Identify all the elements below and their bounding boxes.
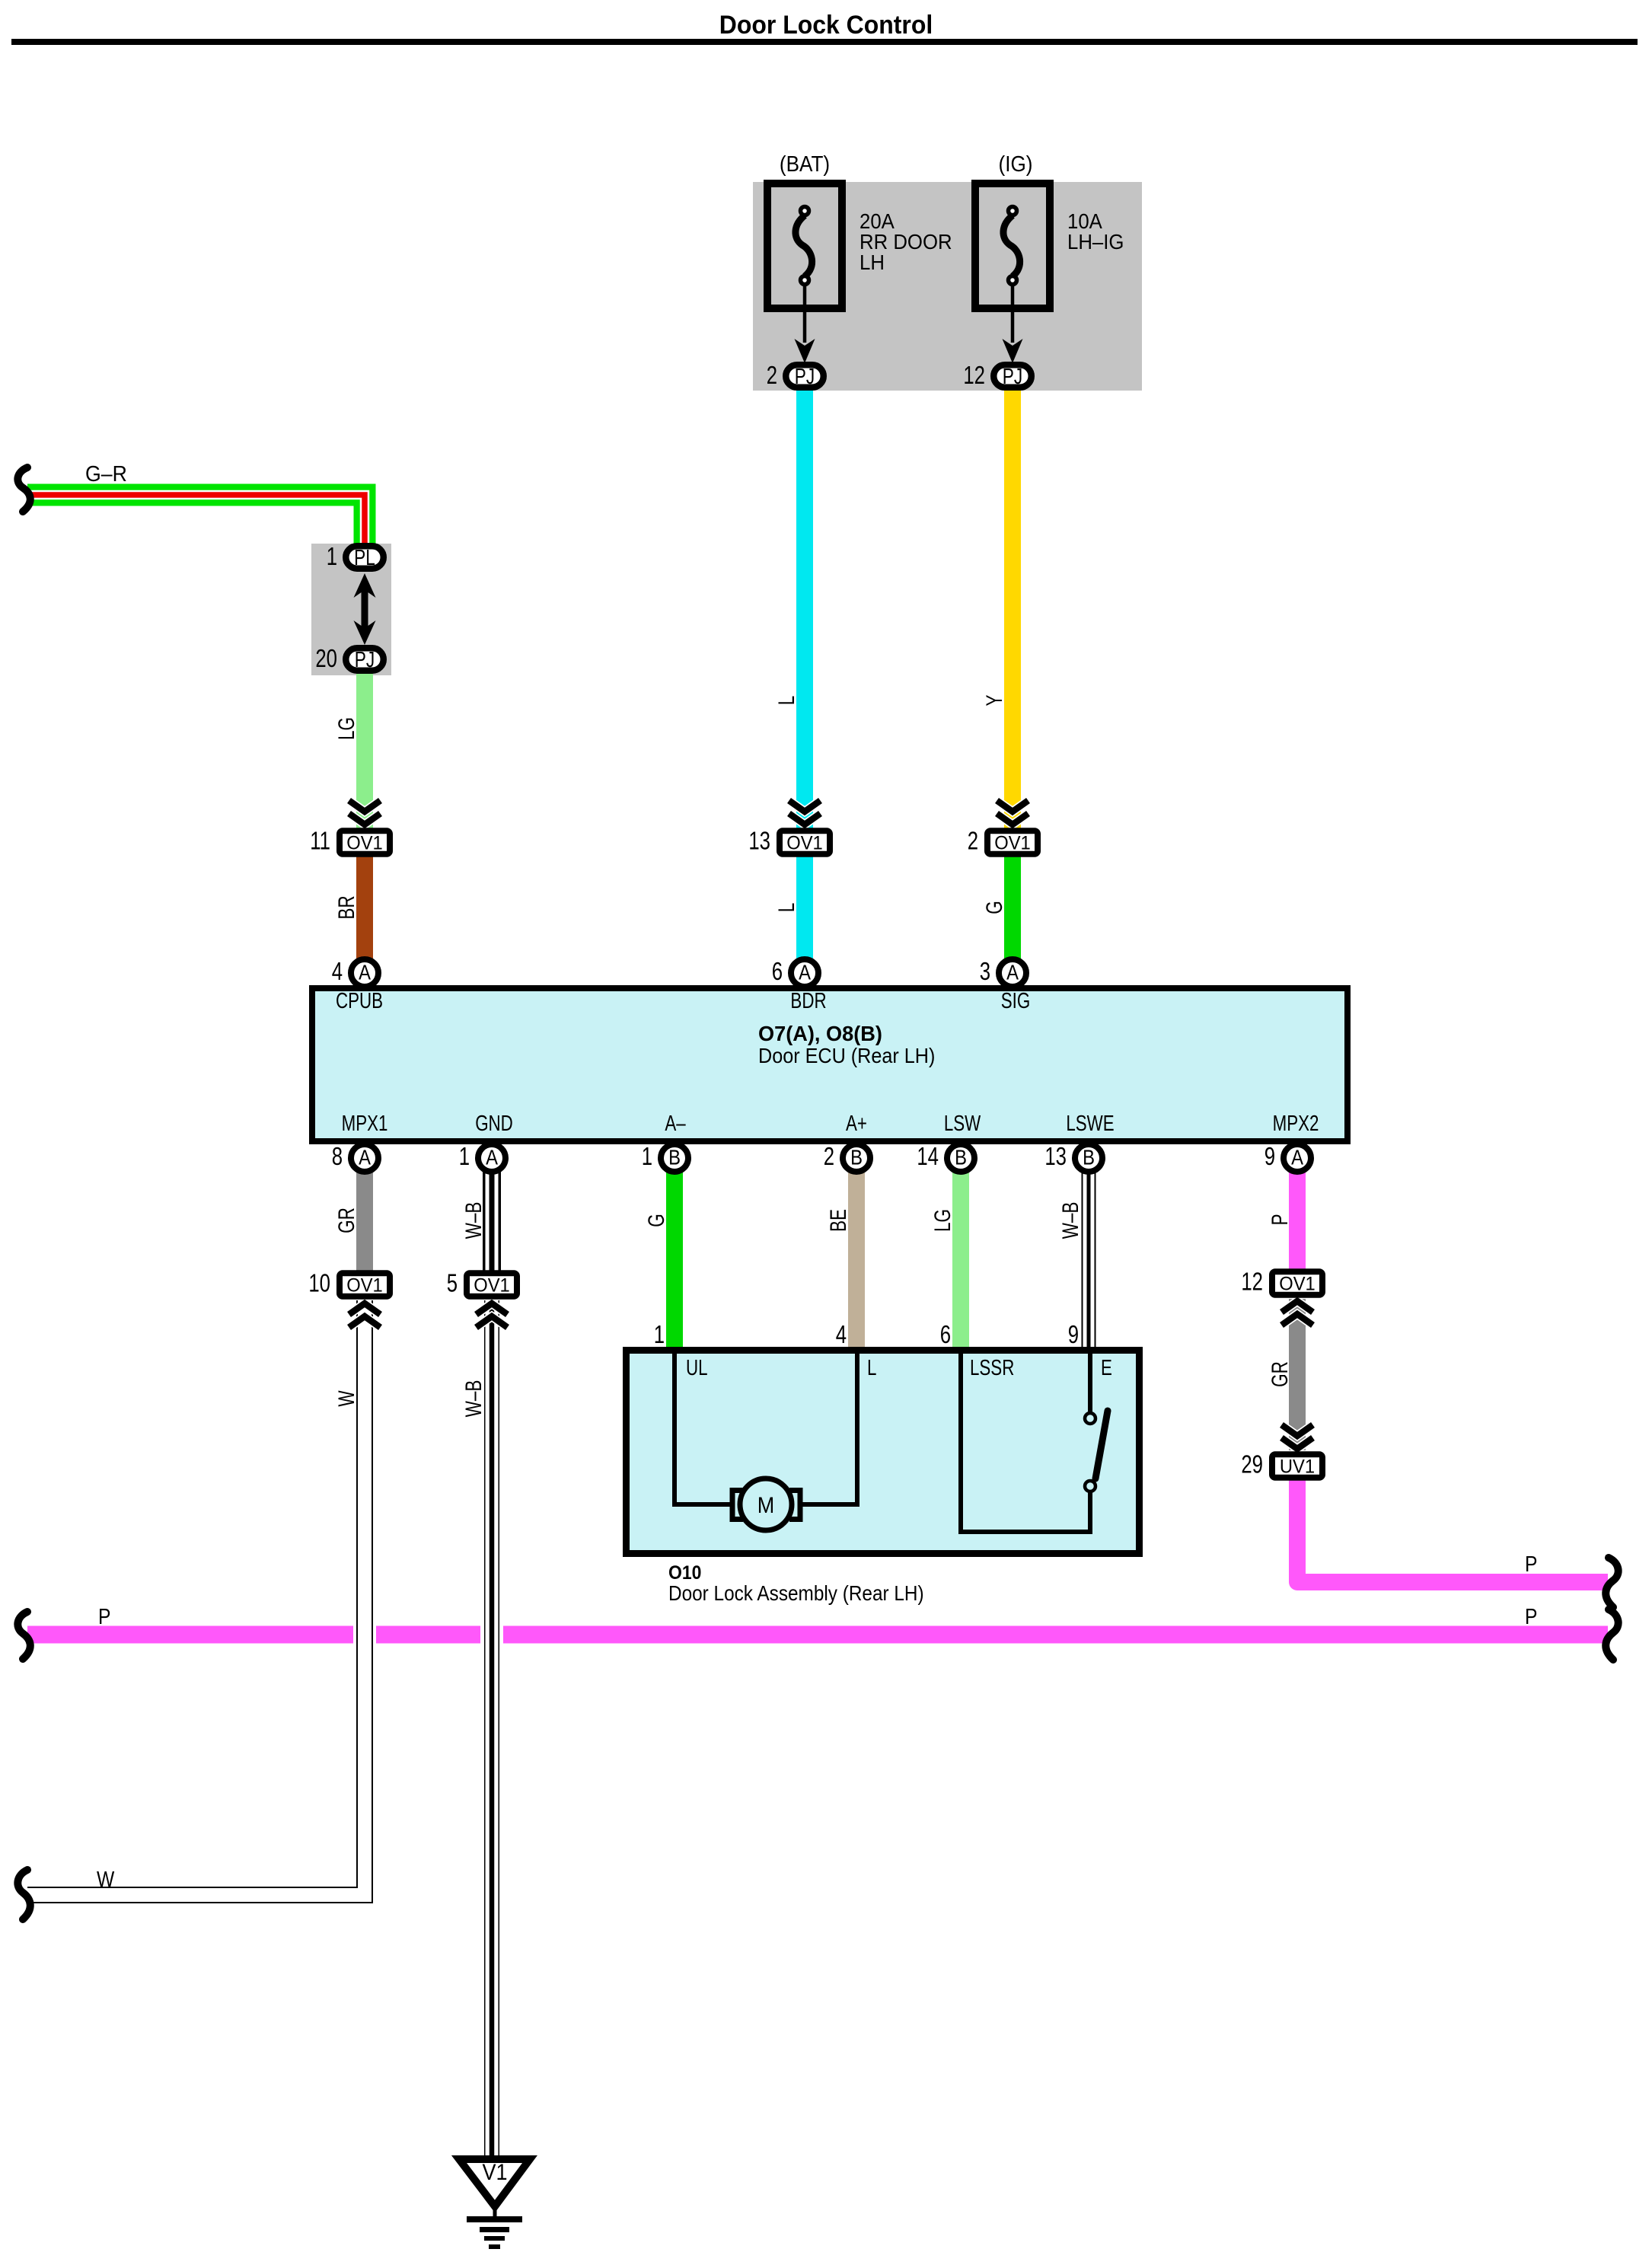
svg-text:A: A xyxy=(1291,1145,1303,1169)
svg-text:A–: A– xyxy=(665,1112,686,1135)
svg-text:P: P xyxy=(1267,1214,1293,1225)
svg-text:A: A xyxy=(799,960,811,984)
svg-text:LG: LG xyxy=(333,717,359,740)
svg-text:GR: GR xyxy=(1267,1361,1293,1387)
svg-text:GR: GR xyxy=(333,1207,359,1233)
svg-text:9: 9 xyxy=(1265,1143,1275,1171)
svg-text:9: 9 xyxy=(1068,1321,1079,1349)
svg-text:Door Lock Control: Door Lock Control xyxy=(719,10,933,39)
svg-text:LSWE: LSWE xyxy=(1066,1112,1114,1135)
svg-text:OV1: OV1 xyxy=(346,1275,383,1297)
svg-text:(IG): (IG) xyxy=(999,152,1033,177)
svg-text:SIG: SIG xyxy=(1001,989,1030,1013)
svg-text:A: A xyxy=(486,1145,498,1169)
svg-text:LH–IG: LH–IG xyxy=(1067,230,1124,254)
svg-text:UV1: UV1 xyxy=(1280,1456,1315,1478)
svg-text:PJ: PJ xyxy=(1003,363,1022,388)
svg-text:W: W xyxy=(333,1390,359,1406)
svg-text:OV1: OV1 xyxy=(1279,1274,1316,1295)
svg-text:UL: UL xyxy=(686,1356,708,1380)
svg-text:1: 1 xyxy=(459,1143,470,1171)
svg-text:12: 12 xyxy=(1241,1268,1263,1297)
svg-text:LSW: LSW xyxy=(944,1112,981,1135)
svg-text:L: L xyxy=(773,696,799,706)
svg-text:L: L xyxy=(867,1356,876,1380)
svg-text:(BAT): (BAT) xyxy=(780,152,830,177)
svg-text:P: P xyxy=(1525,1552,1537,1576)
svg-text:6: 6 xyxy=(772,958,783,986)
svg-text:BDR: BDR xyxy=(790,989,826,1013)
svg-text:Y: Y xyxy=(981,694,1007,706)
svg-text:4: 4 xyxy=(836,1321,847,1349)
svg-text:PJ: PJ xyxy=(795,363,815,388)
svg-text:P: P xyxy=(98,1604,110,1629)
svg-text:29: 29 xyxy=(1241,1451,1263,1479)
svg-text:PL: PL xyxy=(354,544,375,569)
svg-text:Door ECU (Rear LH): Door ECU (Rear LH) xyxy=(758,1044,935,1068)
svg-text:B: B xyxy=(850,1145,863,1169)
svg-text:13: 13 xyxy=(1044,1143,1067,1171)
svg-text:2: 2 xyxy=(824,1143,834,1171)
svg-text:L: L xyxy=(773,903,799,913)
svg-text:14: 14 xyxy=(917,1143,939,1171)
svg-text:OV1: OV1 xyxy=(474,1275,510,1297)
svg-text:LH: LH xyxy=(859,250,885,274)
svg-text:LSSR: LSSR xyxy=(970,1356,1014,1380)
svg-text:BR: BR xyxy=(333,895,359,919)
svg-text:Door Lock Assembly (Rear LH): Door Lock Assembly (Rear LH) xyxy=(668,1581,924,1605)
svg-text:M: M xyxy=(757,1493,774,1519)
svg-text:LG: LG xyxy=(930,1209,955,1232)
svg-text:CPUB: CPUB xyxy=(336,989,383,1013)
svg-text:O7(A), O8(B): O7(A), O8(B) xyxy=(758,1022,882,1045)
svg-text:OV1: OV1 xyxy=(994,833,1031,854)
svg-text:20: 20 xyxy=(315,645,337,673)
svg-text:4: 4 xyxy=(332,958,343,986)
svg-text:10: 10 xyxy=(308,1270,330,1298)
svg-text:V1: V1 xyxy=(482,2160,507,2186)
svg-text:8: 8 xyxy=(332,1143,343,1171)
svg-text:W–B: W–B xyxy=(1057,1202,1083,1239)
svg-text:G: G xyxy=(643,1214,669,1227)
svg-text:2: 2 xyxy=(767,362,777,390)
svg-text:12: 12 xyxy=(963,362,985,390)
svg-text:PJ: PJ xyxy=(355,646,375,672)
svg-text:G: G xyxy=(981,901,1007,914)
svg-text:W–B: W–B xyxy=(461,1202,486,1239)
svg-text:A: A xyxy=(1006,960,1019,984)
svg-text:13: 13 xyxy=(748,828,770,856)
svg-text:B: B xyxy=(668,1145,681,1169)
svg-text:6: 6 xyxy=(940,1321,951,1349)
svg-text:OV1: OV1 xyxy=(346,833,383,854)
svg-text:A+: A+ xyxy=(846,1112,867,1135)
svg-text:BE: BE xyxy=(825,1209,851,1232)
svg-text:2: 2 xyxy=(968,828,978,856)
svg-text:P: P xyxy=(1525,1604,1537,1629)
svg-text:3: 3 xyxy=(980,958,990,986)
svg-text:A: A xyxy=(359,1145,371,1169)
svg-text:1: 1 xyxy=(327,543,337,571)
svg-text:1: 1 xyxy=(642,1143,652,1171)
svg-text:G–R: G–R xyxy=(85,461,127,486)
svg-text:1: 1 xyxy=(654,1321,665,1349)
svg-text:B: B xyxy=(955,1145,967,1169)
svg-text:GND: GND xyxy=(475,1112,513,1135)
svg-text:OV1: OV1 xyxy=(786,833,823,854)
svg-text:A: A xyxy=(359,960,371,984)
svg-text:5: 5 xyxy=(447,1270,458,1298)
svg-text:W: W xyxy=(97,1867,115,1891)
svg-text:MPX2: MPX2 xyxy=(1273,1112,1319,1135)
svg-text:E: E xyxy=(1101,1356,1112,1380)
svg-text:MPX1: MPX1 xyxy=(342,1112,388,1135)
svg-text:B: B xyxy=(1083,1145,1095,1169)
svg-text:11: 11 xyxy=(310,828,330,856)
svg-text:W–B: W–B xyxy=(461,1380,486,1418)
